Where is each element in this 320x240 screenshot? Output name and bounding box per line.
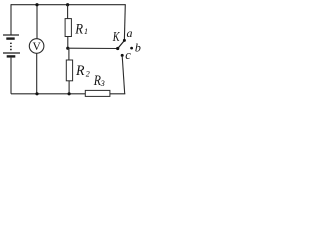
svg-text:1: 1 xyxy=(84,27,88,36)
svg-text:2: 2 xyxy=(86,70,90,79)
svg-text:R: R xyxy=(93,73,101,89)
wire bottom xyxy=(11,93,125,95)
wire top xyxy=(11,4,125,6)
voltmeter V xyxy=(29,39,44,54)
wire right lower xyxy=(122,56,125,94)
svg-text:V: V xyxy=(32,41,41,53)
wire R2 bottom lead xyxy=(68,81,70,94)
svg-text:R: R xyxy=(75,63,84,79)
junction top R1 xyxy=(66,3,69,6)
resistor R1 xyxy=(65,19,71,37)
junction middle xyxy=(66,47,69,50)
battery xyxy=(3,35,20,56)
node a xyxy=(123,39,126,42)
svg-text:3: 3 xyxy=(100,79,105,88)
svg-text:R: R xyxy=(74,21,83,37)
wire R1 top lead xyxy=(67,5,69,19)
svg-text:a: a xyxy=(127,26,133,40)
wire R2 top lead xyxy=(68,48,70,60)
junction top voltmeter xyxy=(35,3,38,6)
wire right upper xyxy=(123,4,126,39)
junction bottom voltmeter xyxy=(35,92,38,95)
wire left upper xyxy=(10,4,12,35)
wire voltmeter branch lower xyxy=(36,53,38,93)
node c xyxy=(121,54,124,57)
svg-text:b: b xyxy=(135,40,141,54)
wire left lower xyxy=(10,58,12,94)
resistor R3 xyxy=(85,90,110,96)
node b xyxy=(130,47,133,50)
svg-text:c: c xyxy=(125,48,131,62)
switch K arm xyxy=(118,41,125,49)
junction bottom R2 xyxy=(68,92,71,95)
wire voltmeter branch upper xyxy=(36,5,38,39)
switch K pivot xyxy=(116,47,119,50)
resistor R2 xyxy=(66,60,72,81)
svg-text:K: K xyxy=(112,30,120,45)
wire R1 bottom lead xyxy=(67,37,69,49)
wire middle to switch xyxy=(68,47,118,49)
